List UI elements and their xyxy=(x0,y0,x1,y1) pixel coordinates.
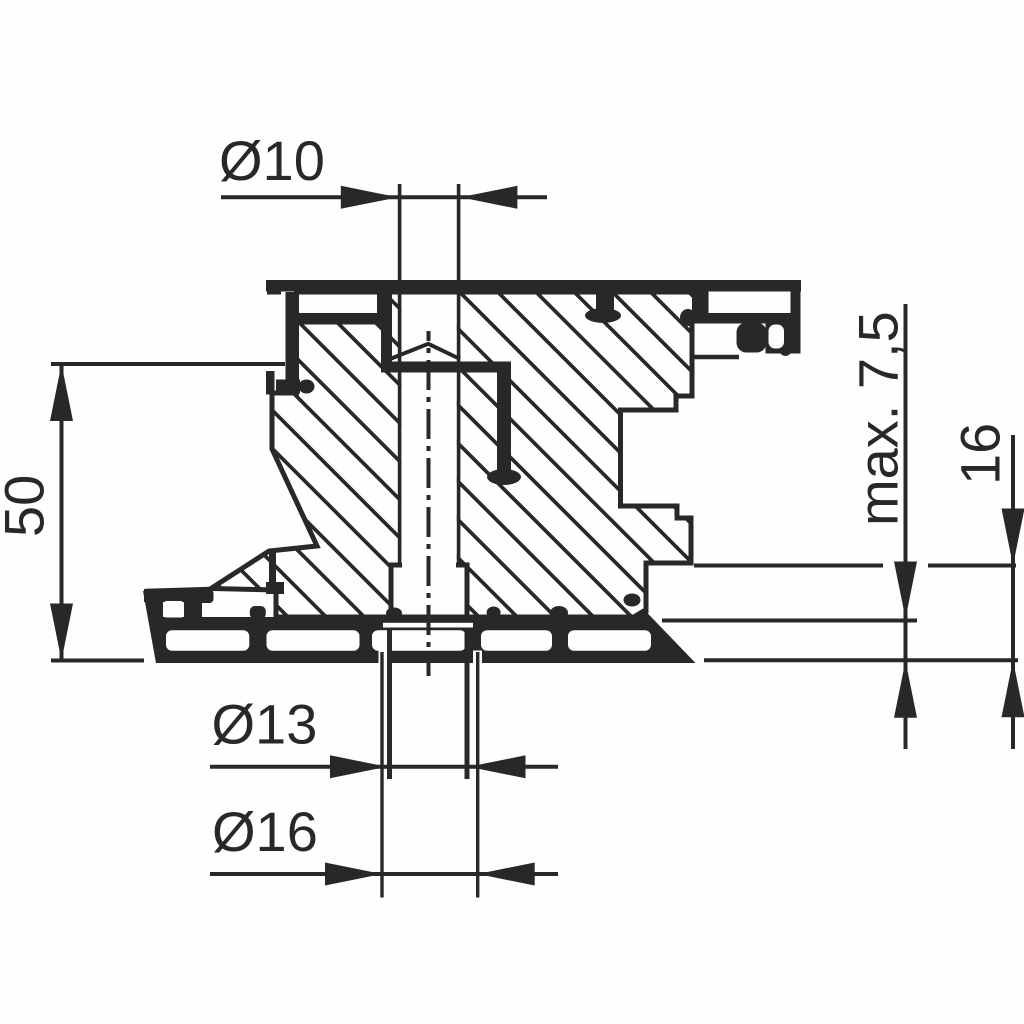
ext line A seg2 xyxy=(928,564,1016,568)
dim 50 ext top xyxy=(51,362,285,366)
gasket seal left stem xyxy=(596,291,614,310)
arrow Ø10 left xyxy=(341,186,398,209)
arrow max75 bottom xyxy=(894,661,917,718)
plate hole slit right xyxy=(473,651,482,664)
plate lip notch xyxy=(165,601,182,618)
plate step seal xyxy=(624,594,641,607)
C-channel foot seal xyxy=(299,380,315,394)
centerline xyxy=(427,331,431,676)
ext line A seg1 xyxy=(694,564,883,568)
arrow Ø16 left xyxy=(325,863,382,886)
sleeve line right xyxy=(476,652,479,898)
dim Ø13 line xyxy=(210,765,558,769)
thread line right xyxy=(465,629,470,779)
clamp bracket foot seal xyxy=(487,469,521,485)
white boss interior Ø13 xyxy=(393,566,466,618)
white screw shank column xyxy=(401,292,456,618)
top profile bar xyxy=(266,280,801,292)
dim 16 line xyxy=(1011,435,1015,749)
white slot: C-channel interior xyxy=(296,292,378,313)
dim 50 ext bottom xyxy=(51,659,144,663)
arrow 50 top xyxy=(50,364,73,421)
boss outline xyxy=(391,565,467,618)
plate top lip line xyxy=(145,589,211,591)
plate chamber 2 xyxy=(267,630,360,651)
plate chamber 1 xyxy=(166,630,249,651)
clamp bracket right leg xyxy=(497,373,511,472)
gasket seal right xyxy=(680,309,696,326)
dim Ø10 line xyxy=(221,195,547,199)
plate seal mid xyxy=(550,606,568,620)
svg-text:max. 7,5: max. 7,5 xyxy=(847,311,910,526)
screw cone chevron xyxy=(390,344,460,359)
C-channel bottom bar xyxy=(296,313,392,325)
dim max75 line xyxy=(904,304,908,749)
screw shank line left xyxy=(398,184,402,565)
clamp bracket upper stem xyxy=(381,325,392,362)
plate tab head xyxy=(182,590,214,604)
arrow 50 bottom xyxy=(50,604,73,661)
plate lip strip xyxy=(144,589,184,602)
arrow 16 bottom xyxy=(1002,660,1024,717)
glazing slot left wall xyxy=(692,291,706,314)
clamp ledge line xyxy=(693,355,739,360)
bottom plate profile xyxy=(143,591,695,663)
C-channel right leg xyxy=(377,292,392,325)
plate tab neck xyxy=(184,601,202,619)
body outline xyxy=(211,292,706,617)
boss corner seal right xyxy=(487,607,501,619)
svg-text:Ø13: Ø13 xyxy=(212,693,318,756)
svg-text:Ø16: Ø16 xyxy=(212,800,318,863)
boss corner seal left xyxy=(386,608,402,619)
thread line left xyxy=(387,629,392,779)
arrow 16 top xyxy=(1002,509,1024,566)
dim Ø16 line xyxy=(210,872,558,876)
arrow Ø10 right xyxy=(460,186,517,209)
gasket seal left xyxy=(585,308,621,323)
right clamp arch slot xyxy=(769,325,785,349)
right clamp seal xyxy=(737,323,767,353)
arrow max75 top xyxy=(894,562,917,619)
C-channel left leg xyxy=(286,292,297,382)
C-channel foot xyxy=(276,380,300,394)
ext line C xyxy=(704,658,1018,662)
svg-text:50: 50 xyxy=(0,475,56,537)
connector chunk xyxy=(266,582,284,594)
arrow Ø16 right xyxy=(478,863,535,886)
plate lip end wall xyxy=(269,549,276,588)
dim 50 line xyxy=(60,364,64,661)
arrow Ø13 right xyxy=(469,755,526,778)
right clamp bar xyxy=(691,313,801,324)
top profile right wall xyxy=(791,280,801,353)
dim max75 ext line B xyxy=(662,619,917,623)
svg-text:Ø10: Ø10 xyxy=(219,129,325,192)
plate chamber 4 xyxy=(481,630,552,651)
plate tab seal xyxy=(250,606,266,619)
right clamp outer seal xyxy=(780,347,791,356)
svg-text:16: 16 xyxy=(949,423,1012,485)
arrow Ø13 left xyxy=(330,755,387,778)
plate hole slit left xyxy=(379,651,388,664)
clamp bracket bar xyxy=(381,362,511,373)
sleeve line left xyxy=(380,652,383,898)
left retainer piece xyxy=(266,371,275,395)
top bar left cap xyxy=(267,280,281,295)
screw shank line right xyxy=(457,184,461,565)
plate chamber 3 xyxy=(372,630,466,651)
plate hole slit under boss xyxy=(383,623,473,628)
white slot: top-right glazing slot xyxy=(706,293,791,313)
right clamp hook block xyxy=(766,323,801,354)
plate chamber 5 xyxy=(568,630,651,651)
